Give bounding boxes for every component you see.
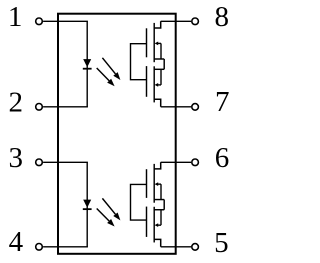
- pin label 4: [9, 226, 24, 258]
- MOSFET Q2b gate bar: [146, 207, 148, 237]
- wire pin 8: [161, 20, 191, 22]
- pin label 7: [215, 86, 230, 118]
- LED D1 emission arrow lower: [97, 68, 115, 86]
- pin label 5: [214, 227, 229, 259]
- LED D2 triangle: [83, 200, 91, 208]
- wire LED column: [86, 162, 88, 247]
- svg-text:4: 4: [9, 226, 24, 258]
- pin 1 terminal circle: [36, 18, 43, 25]
- svg-text:1: 1: [8, 1, 23, 33]
- LED D1 triangle: [83, 59, 91, 67]
- svg-text:8: 8: [214, 1, 229, 33]
- MOSFET Q1b source stub: [154, 68, 164, 70]
- wire pin 3 to LED anode: [43, 161, 88, 163]
- MOSFET Q2b body arrow: [155, 210, 161, 227]
- pin 8 terminal circle: [192, 18, 199, 25]
- MOSFET Q2a body arrow: [155, 182, 161, 199]
- MOSFET Q1b body arrow: [155, 69, 161, 87]
- wire pin 4 to LED cathode: [43, 246, 88, 248]
- pin 3 terminal circle: [36, 159, 43, 166]
- pin 2 terminal circle: [36, 104, 43, 111]
- MOSFET Q1b channel bar: [153, 66, 155, 102]
- pin label 1: [8, 1, 23, 33]
- pin label 6: [215, 142, 230, 174]
- MOSFET Q2a drain tab: [154, 162, 161, 169]
- MOSFET Q2b drain tab: [154, 239, 161, 246]
- pin label 2: [8, 87, 23, 119]
- LED D2 emission arrow upper: [102, 198, 120, 220]
- pin 7 terminal circle: [192, 104, 199, 111]
- LED D2 cathode bar: [83, 208, 92, 210]
- svg-text:2: 2: [8, 87, 23, 119]
- wire LED column: [86, 21, 88, 107]
- svg-text:7: 7: [215, 86, 230, 118]
- MOSFET Q1a body arrow: [155, 42, 161, 60]
- wire pin 5: [161, 246, 191, 248]
- MOSFET Q2a gate bar: [146, 169, 148, 198]
- wire pin 6: [161, 161, 191, 163]
- wire pin 1 to LED anode: [43, 20, 88, 22]
- pin 6 terminal circle: [192, 159, 199, 166]
- wire pin 7: [161, 106, 191, 108]
- source common vertical channel 2: [163, 200, 165, 210]
- MOSFET Q2a source stub: [154, 199, 164, 201]
- MOSFET Q1a gate bar: [146, 28, 148, 57]
- IC body outline: [58, 14, 176, 254]
- gate interconnect wire channel 1: [131, 44, 147, 80]
- MOSFET Q1a source stub: [154, 58, 164, 60]
- MOSFET Q1a drain tab: [154, 21, 161, 28]
- LED D1 cathode bar: [83, 68, 92, 70]
- source common vertical channel 1: [163, 59, 165, 69]
- pin label 3: [8, 142, 23, 174]
- pin label 8: [214, 1, 229, 33]
- MOSFET Q2a channel bar: [153, 164, 155, 203]
- svg-text:5: 5: [214, 227, 229, 259]
- pin 5 terminal circle: [192, 244, 199, 251]
- MOSFET Q2b channel bar: [153, 207, 155, 243]
- LED D1 emission arrow upper: [102, 58, 120, 80]
- MOSFET Q2b source stub: [154, 209, 164, 211]
- gate interconnect wire channel 2: [131, 184, 147, 220]
- svg-text:6: 6: [215, 142, 230, 174]
- MOSFET Q1a channel bar: [153, 23, 155, 62]
- LED D2 emission arrow lower: [97, 208, 115, 226]
- svg-text:3: 3: [8, 142, 23, 174]
- MOSFET Q1b drain tab: [154, 99, 161, 107]
- MOSFET Q1b gate bar: [146, 66, 148, 97]
- pin 4 terminal circle: [36, 244, 43, 251]
- wire pin 2 to LED cathode: [43, 106, 88, 108]
